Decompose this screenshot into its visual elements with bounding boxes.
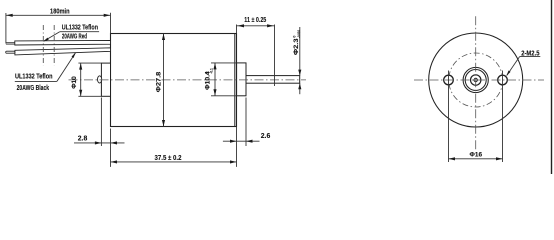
- shaft: [246, 76, 300, 84]
- wire red bare tip: [6, 42, 15, 44]
- svg-text:2.6: 2.6: [261, 133, 271, 140]
- svg-text:20AWG Black: 20AWG Black: [17, 85, 50, 92]
- svg-text:UL1332 Teflon: UL1332 Teflon: [15, 73, 53, 80]
- bolt circle dashed: [449, 53, 503, 107]
- rear boss: [101, 63, 110, 96]
- leader to black wire: [57, 53, 76, 81]
- rear bump ellipse: [98, 76, 102, 83]
- svg-text:180min: 180min: [50, 7, 70, 16]
- svg-text:-0.016: -0.016: [297, 30, 301, 38]
- svg-text:Φ16: Φ16: [470, 152, 483, 159]
- dim phi10 rear boss: [78, 62, 101, 64]
- svg-text:Φ27.8: Φ27.8: [155, 72, 162, 93]
- dim phi2.3 shaft dia: [299, 27, 301, 76]
- wire break dash-dot lines: [42, 25, 44, 66]
- dim phi27.8 body: [163, 34, 165, 127]
- dim 37.5±0.2 body length: [111, 161, 237, 163]
- svg-text:0: 0: [292, 36, 296, 38]
- svg-text:20AWG Red: 20AWG Red: [62, 34, 87, 41]
- svg-text:11 ± 0.25: 11 ± 0.25: [244, 17, 266, 24]
- wire black bare tip: [6, 51, 15, 53]
- svg-text:Φ2.3: Φ2.3: [293, 38, 300, 55]
- hole axis left / phi16 ext: [448, 71, 450, 163]
- drawing frame right border: [551, 0, 553, 174]
- front view centerline vertical: [475, 16, 477, 149]
- dim 2.6 front boss length: [245, 98, 247, 147]
- leader to right hole: [507, 57, 520, 76]
- dim phi10.4 front boss: [211, 62, 237, 64]
- svg-text:2.8: 2.8: [78, 136, 88, 143]
- front view centerline horizontal: [414, 79, 544, 81]
- front boss: [237, 63, 246, 96]
- motor can body: [111, 34, 237, 127]
- dim 180min: [5, 13, 7, 44]
- svg-text:Φ10: Φ10: [71, 76, 78, 89]
- dim phi16 bolt circle: [449, 158, 503, 160]
- wire black insulation: [15, 48, 111, 55]
- mounting hole left: [444, 75, 454, 85]
- centerline side view: [69, 79, 307, 81]
- center circles: [463, 67, 488, 92]
- dim 2.8 rear boss length: [100, 98, 102, 147]
- svg-text:UL1332 Teflon: UL1332 Teflon: [62, 25, 98, 32]
- dim 11±0.25 shaft: [236, 25, 238, 34]
- svg-text:-0.1: -0.1: [210, 68, 214, 74]
- leader to red wire: [44, 32, 60, 41]
- mounting hole right: [498, 75, 508, 85]
- wire red insulation: [15, 40, 111, 45]
- can seam line: [234, 34, 236, 127]
- hole axis right / phi16 ext: [502, 71, 504, 163]
- svg-text:37.5 ± 0.2: 37.5 ± 0.2: [155, 155, 182, 162]
- front view outer circle: [429, 33, 523, 127]
- svg-text:0: 0: [205, 72, 209, 74]
